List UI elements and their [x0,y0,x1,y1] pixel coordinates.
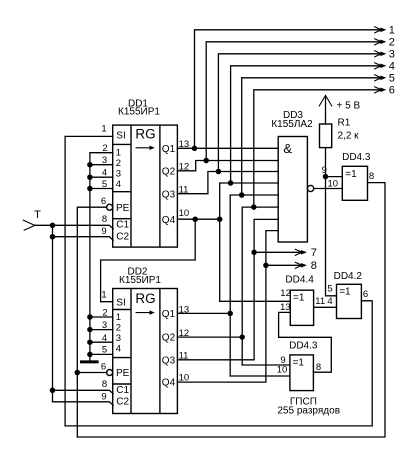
svg-text:5: 5 [389,73,395,85]
svg-text:2,2 к: 2,2 к [338,131,360,142]
input T clock node [23,209,41,230]
svg-text:7: 7 [311,247,317,259]
svg-text:3: 3 [116,333,121,344]
svg-text:=1: =1 [345,169,357,180]
net Q2 DD1 (output 2) [177,37,394,171]
svg-text:4: 4 [327,296,332,307]
net Q4 DD1 (output 4, tap to DD4.4.12 and DD2.SI) [101,61,395,302]
svg-text:C2: C2 [116,397,129,408]
svg-text:Q4: Q4 [162,378,176,389]
junction dot pin5 DD1 [87,186,93,192]
svg-text:1: 1 [101,290,106,301]
junction Q4/SI-drop [192,216,198,222]
wire SI DD1 (pin 1) [65,136,113,426]
wire DD4.3 lower output 8 to DD4.4 pin 13 [279,312,332,372]
svg-text:11: 11 [315,296,325,307]
svg-text:9: 9 [101,226,106,237]
XOR gate DD4.4 [280,275,325,326]
junction Q8/arrow8 [263,263,269,269]
svg-text:=1: =1 [293,293,305,304]
net Q3 DD2 (output 7) [177,219,316,359]
junction Q1/arrow1 [192,146,198,152]
svg-text:2: 2 [116,323,121,334]
wire T to C1/C2 of DD1 and DD2 [35,223,113,406]
shift register DD2 К155ИР1 [101,266,189,413]
svg-text:DD4.3: DD4.3 [342,152,371,163]
svg-text:1: 1 [116,147,121,158]
ground symbol [80,360,99,363]
junction T/C1 DD1 [50,223,56,229]
svg-text:Q1: Q1 [162,309,176,320]
svg-text:3: 3 [389,49,395,61]
svg-text:6: 6 [363,289,368,300]
NAND gate DD3 К155ЛА2 [271,110,313,242]
XOR gate DD4.2 [327,271,368,319]
junction Q6/riser [239,334,245,340]
junction Q6/arrow6 [251,204,256,210]
svg-text:8: 8 [311,260,317,272]
svg-text:255 разрядов: 255 разрядов [277,406,340,417]
svg-text:3: 3 [116,169,121,180]
DD2 PE inversion circle (pin 6) [107,370,113,376]
svg-text:К155ИР1: К155ИР1 [118,107,160,118]
junction PE DD2 [75,370,81,376]
svg-text:+ 5 В: + 5 В [337,101,361,112]
wire DD3 output to DD4.3 upper pin 10 [314,188,343,190]
junction dot pin4 DD2 [87,339,93,345]
net Q4 DD2 (output 8) [177,231,316,383]
junction Q5/arrow5 [239,192,245,198]
wire PE net (DD1 pin 6, DD2 pin 6) [75,207,107,437]
svg-text:10: 10 [277,365,288,376]
svg-text:DD4.2: DD4.2 [334,271,363,282]
svg-text:Q4: Q4 [162,215,176,226]
svg-text:9: 9 [101,391,106,402]
svg-text:13: 13 [280,302,291,313]
svg-text:1: 1 [101,123,106,134]
svg-text:10: 10 [179,208,190,219]
svg-text:DD4.3: DD4.3 [289,340,318,351]
junction Q5/riser [227,311,233,317]
+5 V supply arrow [319,95,360,124]
svg-text:Q1: Q1 [162,144,176,155]
svg-text:Q3: Q3 [162,189,176,200]
wire R1 pull-up node to DD4.3 upper pin 9 and DD4.2 pin 5 [323,148,343,296]
junction Q7/arrow7 [251,250,257,256]
svg-text:SI: SI [116,130,125,141]
svg-text:=1: =1 [293,357,305,368]
junction dot pin4 DD1 [87,174,93,180]
svg-text:RG: RG [135,291,155,306]
svg-text:8: 8 [369,171,374,182]
svg-text:К155ИР1: К155ИР1 [119,275,161,286]
svg-text:R1: R1 [338,118,351,129]
svg-text:6: 6 [389,85,395,97]
DD1 PE inversion circle (pin 6) [107,204,113,210]
svg-text:Q2: Q2 [162,166,176,177]
DD3 output inversion circle [308,185,314,191]
resistor R1 2,2 к [320,118,360,148]
svg-text:2: 2 [116,158,121,169]
svg-text:=1: =1 [339,287,351,298]
svg-text:DD4.4: DD4.4 [285,275,314,286]
junction T/C1 DD2 [50,388,56,394]
svg-text:2: 2 [389,37,395,49]
svg-text:5: 5 [327,283,332,294]
junction Q2/arrow2 [203,158,209,164]
svg-text:8: 8 [316,362,321,373]
svg-text:PE: PE [116,203,130,214]
svg-text:C1: C1 [116,220,129,231]
svg-text:8: 8 [102,379,107,390]
XOR gate DD4.3 (lower) [277,340,321,390]
svg-text:6: 6 [101,361,106,372]
svg-text:К155ЛА2: К155ЛА2 [271,119,313,130]
net Q1 DD1 (output 1) [177,25,394,151]
svg-text:1: 1 [116,312,121,323]
svg-text:8: 8 [102,214,107,225]
svg-text:Т: Т [34,209,41,221]
junction Q4/riser [217,216,223,222]
junction T/C2 DD1 [50,234,56,240]
svg-text:SI: SI [116,297,125,308]
svg-text:6: 6 [101,196,106,207]
svg-text:C1: C1 [116,385,129,396]
svg-text:RG: RG [135,127,155,142]
net Q1 DD2 (output 5, tap to DD4.3 lower pin 10) [177,73,394,376]
shift register DD1 К155ИР1 [101,99,189,248]
ground net (inputs 1-4 of DD1 and DD2 to common) [87,153,113,361]
svg-text:C2: C2 [116,232,129,243]
junction Q4/arrow4 [228,180,234,186]
XOR gate DD4.3 (upper) [322,152,375,200]
junction dot pin2 DD2 [87,314,93,320]
net Q2 DD2 (output 6, tap to DD4.3 lower pin 9) [177,85,394,365]
svg-text:PE: PE [116,368,130,379]
junction dot pin3 DD2 [87,327,93,333]
svg-text:Q2: Q2 [162,333,176,344]
svg-text:&: & [283,141,292,156]
wire DD4.2 output 6 to SI rail [65,301,372,426]
wire DD4.3 upper output 8 to PE rail [77,183,385,437]
svg-text:4: 4 [116,179,121,190]
svg-text:4: 4 [116,344,121,355]
svg-text:1: 1 [389,25,395,37]
net Q3 DD1 (output 3) [177,49,394,194]
junction Q3/arrow3 [216,169,222,175]
junction dot pin5 DD2 [87,352,93,358]
svg-text:4: 4 [389,61,395,73]
wire DD4.4 output 11 to DD4.2 pin 4 [314,306,337,308]
junction R1/pin9 [323,174,329,180]
junction dot pin3 DD1 [87,162,93,168]
svg-text:Q3: Q3 [162,355,176,366]
svg-text:12: 12 [280,288,291,299]
